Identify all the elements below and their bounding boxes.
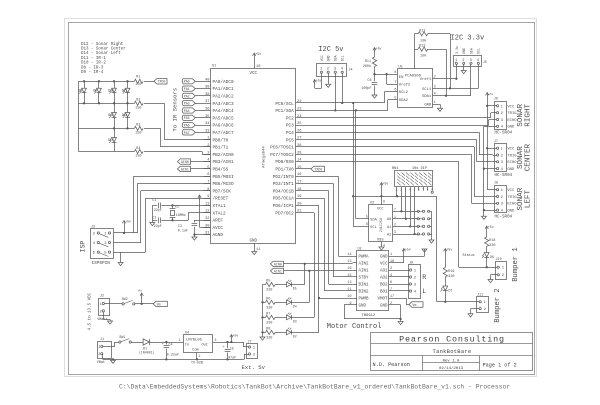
U1 GND pin 11 <box>250 240 262 252</box>
port flag PA2 <box>182 93 210 99</box>
svg-text:TRIG: TRIG <box>507 112 517 116</box>
svg-text:PB2/AIN0: PB2/AIN0 <box>213 153 234 158</box>
svg-text:XTAL1: XTAL1 <box>213 204 227 209</box>
svg-text:PB4/SS: PB4/SS <box>213 168 229 173</box>
wire LED row D <box>79 151 135 153</box>
wire PWMA stub <box>338 256 352 258</box>
U1 pin label PA7/ADC7 <box>213 131 234 136</box>
svg-text:PA6/ADC6: PA6/ADC6 <box>213 124 234 129</box>
ground AGND <box>192 237 197 240</box>
svg-text:In: In <box>185 344 189 348</box>
svg-text:PD3/INT1: PD3/INT1 <box>273 182 294 187</box>
capacitor C6 100pF <box>361 74 377 95</box>
sonar connector J7 HC-SR04 <box>493 140 518 178</box>
U1 pin label PD2/INT0 <box>273 173 302 180</box>
svg-text:3: 3 <box>215 338 217 342</box>
wire MCU PD to motor x333.3 <box>296 184 334 278</box>
svg-text:18: 18 <box>297 188 301 192</box>
wire RN1 common to +5v line <box>396 191 398 198</box>
ground at U3 <box>379 247 384 250</box>
svg-text:5: 5 <box>366 215 368 219</box>
U2 pin PWMA <box>347 253 369 260</box>
svg-text:D14 - Sonar Left: D14 - Sonar Left <box>81 51 121 56</box>
+5v sonar rail <box>486 93 494 190</box>
U5 pin SCL2 <box>394 89 408 96</box>
svg-text:PD7/OC2: PD7/OC2 <box>275 211 294 216</box>
port flag PA7 <box>182 129 210 135</box>
U1 pin label PB5/MOSI <box>204 173 234 180</box>
svg-text:02/14/2013: 02/14/2013 <box>439 366 464 371</box>
ISP pins row 1 <box>93 232 111 237</box>
wire RN1 pin5 drop <box>413 191 415 236</box>
svg-text:PA4/ADC4: PA4/ADC4 <box>213 109 234 114</box>
svg-text:TXD0: TXD0 <box>157 80 165 84</box>
svg-text:8: 8 <box>207 188 209 192</box>
svg-text:D13: D13 <box>122 113 128 117</box>
net flag AIN0 (motor) <box>271 261 353 266</box>
svg-text:330: 330 <box>266 322 272 326</box>
svg-text:VBatt: VBatt <box>97 318 107 322</box>
LED D12 <box>108 103 116 129</box>
wire BIN1 stub <box>329 284 353 286</box>
U2 pin AIN1 <box>347 267 369 274</box>
port flag PA6 <box>182 122 210 128</box>
switch SW1 <box>119 336 132 343</box>
connector J1 <box>97 338 112 365</box>
svg-text:10: 10 <box>256 65 260 69</box>
svg-text:R3: R3 <box>136 124 140 128</box>
svg-text:U4: U4 <box>185 331 189 335</box>
svg-text:2: 2 <box>207 144 209 148</box>
wire J5 SDA drop <box>470 67 472 96</box>
svg-text:VCC: VCC <box>507 189 515 193</box>
svg-text:PA6: PA6 <box>184 124 190 128</box>
ground at U5 <box>438 108 443 111</box>
svg-text:GND: GND <box>507 168 515 172</box>
U1 pin label PC5 <box>286 137 302 144</box>
U1 pin label PA1/ADC1 <box>213 87 234 92</box>
svg-text:ISP: ISP <box>80 241 87 253</box>
resistor R5 330 <box>263 280 287 293</box>
wire J4 SCL drop <box>341 76 343 104</box>
wire RN1 pin3 drop <box>405 191 407 220</box>
svg-text:3: 3 <box>394 230 396 234</box>
U1 pin label PC6/TOSC1 <box>270 144 301 151</box>
ground at J10 <box>488 275 494 283</box>
svg-text:35: 35 <box>205 115 209 119</box>
svg-text:10k DIP: 10k DIP <box>412 166 427 171</box>
J4 pin 3 SDA <box>334 55 338 76</box>
svg-text:PWMA: PWMA <box>359 256 370 260</box>
wire SW1 to D1 <box>131 342 143 344</box>
svg-text:8: 8 <box>383 200 385 204</box>
svg-text:AVCC: AVCC <box>213 226 224 231</box>
wire ISP row2 <box>114 242 141 244</box>
U1 pin label PD7/OC2 <box>275 210 302 217</box>
wire SCL drop to U3 <box>352 102 369 227</box>
svg-text:D14: D14 <box>108 138 114 142</box>
net flag TXD0 at R1 <box>154 79 167 84</box>
net flag Vm (battery) <box>153 301 167 306</box>
U2 pin BO1 <box>380 288 394 295</box>
svg-text:6: 6 <box>366 222 368 226</box>
wire RN1 pin4 drop <box>409 191 411 228</box>
svg-text:SDA1: SDA1 <box>422 95 432 99</box>
U5 pin SCL1 <box>422 85 438 92</box>
svg-text:SDA: SDA <box>469 48 473 54</box>
wire sonar signal y154.3 <box>296 154 493 203</box>
U2 pin BO2 <box>380 281 394 288</box>
svg-text:D8: D8 <box>78 89 82 93</box>
ground at U1 GND <box>252 252 257 255</box>
wire U2 GND left <box>344 305 401 320</box>
svg-text:R5: R5 <box>266 280 270 284</box>
svg-text:1: 1 <box>98 346 100 350</box>
U2 pin VCC <box>380 260 394 267</box>
sonar connector J6 HC-SR04 <box>493 98 518 136</box>
svg-text:BO1: BO1 <box>380 291 388 295</box>
inner frame <box>69 23 535 375</box>
U1 pin label PA3/ADC3 <box>213 102 234 107</box>
svg-text:J7: J7 <box>494 140 498 144</box>
svg-text:8: 8 <box>394 71 396 75</box>
LED D8 <box>78 80 86 104</box>
ground at J11 <box>468 309 475 318</box>
svg-text:1: 1 <box>179 338 181 342</box>
svg-text:ECHO: ECHO <box>507 161 517 165</box>
svg-text:PC5: PC5 <box>286 138 294 143</box>
svg-text:PA0/ADC0: PA0/ADC0 <box>213 80 234 85</box>
wire R12 to SCL1 <box>428 34 451 90</box>
svg-text:To IR Sensors: To IR Sensors <box>172 88 179 132</box>
net flag Vm (motor) <box>409 302 423 307</box>
svg-text:C5: C5 <box>230 347 234 351</box>
ground rail bottom <box>103 354 245 361</box>
svg-text:Motor Control: Motor Control <box>327 323 382 331</box>
svg-text:17: 17 <box>390 295 394 299</box>
svg-text:9: 9 <box>349 302 351 306</box>
svg-text:Ext. 5v: Ext. 5v <box>242 364 266 371</box>
svg-text:A2: A2 <box>387 233 391 237</box>
svg-text:+5v: +5v <box>383 181 389 185</box>
U3 right pin 7 <box>393 207 419 211</box>
svg-text:SW1: SW1 <box>119 336 125 340</box>
LED D3 <box>287 313 315 324</box>
svg-text:PC2: PC2 <box>286 116 294 121</box>
svg-text:Out: Out <box>202 344 208 348</box>
ISP connector J3 box <box>91 225 114 266</box>
U2 pin BIN2 <box>347 288 369 295</box>
svg-text:4: 4 <box>434 93 436 97</box>
wire MCU PD to motor x328.7 <box>296 191 329 285</box>
svg-text:23: 23 <box>297 108 301 112</box>
svg-text:VCC: VCC <box>380 263 388 267</box>
U1 pin label PA2/ADC2 <box>213 95 234 100</box>
wire MCU PD to motor x324.0 <box>296 198 325 291</box>
svg-text:3.3v: 3.3v <box>455 46 459 54</box>
U2 pin AO1 <box>380 267 394 274</box>
svg-text:PC7/TOSC2: PC7/TOSC2 <box>270 153 294 158</box>
svg-text:AO1: AO1 <box>380 270 388 274</box>
svg-text:1: 1 <box>434 101 436 105</box>
svg-text:R: R <box>422 274 426 281</box>
title block <box>371 333 534 372</box>
resistor R4 150 <box>134 147 143 159</box>
svg-text:TankBotBare: TankBotBare <box>433 349 472 355</box>
svg-text:1: 1 <box>100 303 102 307</box>
svg-text:21: 21 <box>297 210 302 214</box>
svg-text:D4: D4 <box>293 304 297 308</box>
svg-text:Vm: Vm <box>157 302 161 306</box>
svg-text:J7: J7 <box>248 340 252 344</box>
svg-text:VCC: VCC <box>250 72 258 76</box>
wire MCU PD to motor x319.0 <box>296 205 319 332</box>
U1 pin label PC0/SCL <box>275 100 301 107</box>
svg-text:R4: R4 <box>136 147 140 151</box>
svg-text:330: 330 <box>266 289 272 293</box>
crystal X1 16MHz <box>170 204 186 221</box>
svg-text:GND: GND <box>327 55 331 61</box>
svg-text:10: 10 <box>347 295 351 299</box>
svg-text:PA0: PA0 <box>184 80 190 84</box>
svg-text:I2C 3.3v: I2C 3.3v <box>451 34 485 42</box>
svg-text:PA5: PA5 <box>184 116 190 120</box>
U2 pin AIN2 <box>347 260 369 267</box>
svg-text:PB5/MOSI: PB5/MOSI <box>213 175 234 180</box>
wire sonar signal y147.0 <box>296 147 493 197</box>
svg-text:RN1: RN1 <box>392 167 398 171</box>
resistor R19 330 <box>443 253 454 286</box>
svg-text:PD0/RX0: PD0/RX0 <box>275 160 294 165</box>
svg-text:+: + <box>162 343 164 347</box>
svg-text:D9 - IR-4: D9 - IR-4 <box>81 71 104 75</box>
svg-text:24LC256: 24LC256 <box>380 218 384 232</box>
svg-text:Rev 1.0: Rev 1.0 <box>443 360 460 364</box>
port flag PA3 <box>182 100 210 106</box>
svg-text:6: 6 <box>390 281 392 285</box>
svg-text:SCL: SCL <box>477 48 481 54</box>
svg-text:J3: J3 <box>91 225 95 229</box>
svg-text:2: 2 <box>199 354 201 358</box>
svg-text:PA3/ADC3: PA3/ADC3 <box>213 102 234 107</box>
wire SCK to ISP <box>141 191 211 243</box>
wire LED row C <box>79 128 135 130</box>
svg-text:R11: R11 <box>365 60 371 64</box>
wire STBY stub <box>333 276 352 278</box>
svg-text:BIN1: BIN1 <box>359 284 370 288</box>
svg-text:+5v: +5v <box>376 46 382 50</box>
ground sonar rail <box>481 126 492 219</box>
svg-text:PD1/TX0: PD1/TX0 <box>275 168 294 173</box>
svg-text:+: + <box>223 346 225 350</box>
ground at ISP <box>118 252 123 266</box>
label SONAR RIGHT <box>517 103 532 126</box>
svg-text:PB3/AIN1: PB3/AIN1 <box>213 160 234 165</box>
wire U4 Out to +5v <box>213 341 244 343</box>
svg-text:ECHO: ECHO <box>507 203 517 207</box>
svg-text:33: 33 <box>205 129 209 133</box>
wire MCU PD to motor x338.3 <box>296 176 339 256</box>
U2 pin BIN1 <box>347 281 369 288</box>
wire bumper2 net <box>437 196 476 302</box>
svg-text:+5v: +5v <box>125 219 131 223</box>
wire AVCC <box>200 199 211 228</box>
wire sonar signal y125.1 <box>296 120 493 126</box>
svg-text:D6: D6 <box>490 255 494 259</box>
ground at rail <box>111 360 116 363</box>
resistor R18 330 <box>485 231 496 253</box>
Vm tap <box>138 290 144 304</box>
RN1 pin9 open <box>431 191 433 193</box>
svg-text:1: 1 <box>390 253 392 257</box>
svg-text:C:\Data\EmbeddedSystems\Roboti: C:\Data\EmbeddedSystems\Robotics\TankBot… <box>119 384 510 391</box>
svg-text:LM78L05: LM78L05 <box>186 338 203 342</box>
wire U2 GND top to ground <box>394 249 424 257</box>
svg-text:10k: 10k <box>420 54 426 59</box>
wire PWMB stub <box>318 297 353 299</box>
svg-text:PC0/SCL: PC0/SCL <box>275 102 294 107</box>
LED D2 <box>287 328 320 339</box>
wire D1 to U4 <box>166 342 183 344</box>
svg-text:J11: J11 <box>477 293 483 297</box>
LED D6 Status <box>463 253 494 269</box>
svg-text:GND: GND <box>424 104 432 108</box>
wire to J7 <box>244 342 248 347</box>
resistor R12 10k <box>414 29 427 43</box>
EEPROM U3 24LC256 box <box>369 201 393 241</box>
U5 pin Vref1 <box>420 76 438 83</box>
svg-text:ECHO: ECHO <box>507 119 517 123</box>
U1 pin label XTAL2 <box>204 210 227 217</box>
svg-text:PD6/ICP1: PD6/ICP1 <box>273 204 294 209</box>
port flag PA4 <box>182 108 210 114</box>
svg-text:J1: J1 <box>100 338 104 342</box>
wire SW2 to flag <box>135 303 153 305</box>
svg-text:R18: R18 <box>489 239 495 243</box>
J4 pin 2 GND <box>327 55 331 76</box>
svg-text:HC-SR04: HC-SR04 <box>495 132 513 136</box>
U1 pin label PB0/T0 <box>204 137 229 144</box>
capacitor C5 47uF <box>223 342 237 360</box>
wire LED bank rail <box>262 285 264 338</box>
port flag PA0 <box>182 78 210 84</box>
svg-text:5: 5 <box>207 166 209 170</box>
svg-text:J6: J6 <box>494 98 498 102</box>
wire SCL1 row <box>438 88 478 90</box>
wire MOSI to ISP <box>133 176 210 233</box>
svg-text:2: 2 <box>434 76 436 80</box>
+5v at AVCC <box>198 195 201 198</box>
wire SCL bus <box>296 92 398 104</box>
svg-text:VBat: VBat <box>97 361 105 365</box>
svg-text:VSS: VSS <box>377 239 383 243</box>
svg-text:EN: EN <box>399 76 404 80</box>
U1 pin label PD0/RX0 <box>275 159 302 166</box>
svg-text:SCL2: SCL2 <box>399 91 409 95</box>
svg-text:N.D. Pearson: N.D. Pearson <box>373 362 410 368</box>
wire R13 to SDA1 <box>428 49 447 97</box>
svg-text:U3: U3 <box>370 201 374 205</box>
svg-text:16MHz: 16MHz <box>176 214 186 218</box>
svg-text:D13 - Sonar Center: D13 - Sonar Center <box>81 47 126 52</box>
svg-text:1: 1 <box>394 215 396 219</box>
svg-text:330: 330 <box>448 275 454 279</box>
+5v at R19 <box>444 249 447 252</box>
svg-text:12: 12 <box>347 281 351 285</box>
U1 pin label PC7/TOSC2 <box>270 151 301 158</box>
connector J11 <box>475 293 489 312</box>
U1 pin label PA0/ADC0 <box>213 80 234 85</box>
U3 pin SDA <box>366 215 378 223</box>
LED D4 <box>287 271 310 308</box>
svg-text:SCL: SCL <box>370 226 376 230</box>
U2 pin GND <box>380 302 394 309</box>
svg-text:38: 38 <box>205 93 209 97</box>
wire J4 VCC to +5v <box>315 76 322 89</box>
svg-text:D10 - IR-2: D10 - IR-2 <box>81 62 106 66</box>
U5 pin SDA2 <box>394 97 408 104</box>
U1 pin label /RESET <box>204 195 229 202</box>
net flag AIN0 (left) <box>178 159 211 164</box>
svg-text:J9: J9 <box>409 262 413 266</box>
svg-text:PC1/SDA: PC1/SDA <box>275 109 294 114</box>
svg-text:TO-92B: TO-92B <box>191 360 203 364</box>
svg-text:D3: D3 <box>293 319 297 323</box>
svg-text:VMOT: VMOT <box>377 298 388 302</box>
U1 pin label PB6/MISO <box>204 181 234 188</box>
svg-text:R2: R2 <box>136 99 140 103</box>
svg-text:J8: J8 <box>494 182 498 186</box>
svg-text:TRIG: TRIG <box>507 154 517 158</box>
wire J2 pin1 to SW2 <box>104 303 122 305</box>
svg-text:2: 2 <box>394 222 396 226</box>
J4 pin 4 SCL <box>341 55 345 76</box>
svg-text:LEFT: LEFT <box>524 190 532 209</box>
U2 pin GND <box>380 253 394 260</box>
svg-text:Page 1 of 2: Page 1 of 2 <box>483 362 517 368</box>
svg-text:5: 5 <box>394 97 396 101</box>
wire R3 to PB1 <box>144 128 211 147</box>
svg-text:D8 - IR-3: D8 - IR-3 <box>81 66 104 70</box>
wire MISO to ISP <box>137 184 210 234</box>
svg-text:TB6612: TB6612 <box>362 314 376 318</box>
svg-text:Bumper 1: Bumper 1 <box>512 247 520 282</box>
U2 pin AO2 <box>380 274 394 281</box>
svg-text:C3: C3 <box>178 225 182 229</box>
svg-text:+5v: +5v <box>447 247 453 251</box>
svg-text:R7: R7 <box>266 312 270 316</box>
svg-text:U2: U2 <box>358 248 362 252</box>
U2 pin PWMB <box>347 295 369 302</box>
connector J4 box <box>317 64 353 77</box>
wire J2 pin2 down <box>103 312 110 321</box>
U2 pin STBY <box>347 274 369 281</box>
svg-text:GND: GND <box>250 240 258 244</box>
svg-text:CENTER: CENTER <box>524 143 532 171</box>
svg-text:C1: C1 <box>152 199 156 203</box>
svg-text:PB6/MISO: PB6/MISO <box>213 182 234 187</box>
svg-text:R8: R8 <box>266 327 270 331</box>
U1 pin label PA5/ADC5 <box>213 116 234 121</box>
svg-text:10k: 10k <box>420 38 426 43</box>
ground at J2 <box>108 321 113 324</box>
svg-text:37: 37 <box>205 100 209 104</box>
capacitor C4 0.22uF <box>162 341 179 360</box>
wire U4 Com to rail <box>196 353 198 360</box>
wire J5 3.3v to Vref1 <box>438 67 458 80</box>
svg-text:TXD0: TXD0 <box>314 167 322 171</box>
svg-text:330: 330 <box>266 337 272 341</box>
